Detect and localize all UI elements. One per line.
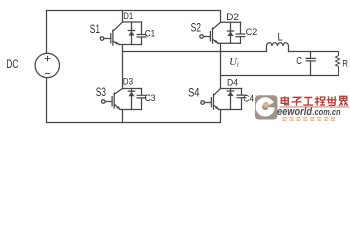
switch S3 IGBT gate terminal bbox=[102, 100, 106, 104]
wire S2 box top bbox=[221, 21, 241, 23]
switch S4 IGBT emitter bbox=[214, 105, 219, 109]
wire mid rail node A to filter bbox=[123, 51, 267, 53]
svg-text:C4: C4 bbox=[243, 94, 254, 105]
wire filter top right of inductor bbox=[289, 51, 339, 53]
wire S4 box bottom bbox=[219, 109, 242, 111]
switch S3 emitter arrow bbox=[117, 106, 121, 109]
wire S1 box top bbox=[123, 21, 142, 23]
switch S2 emitter arrow bbox=[214, 40, 218, 43]
svg-text:D3: D3 bbox=[123, 76, 133, 87]
wire S4 box top bbox=[221, 88, 242, 90]
switch S2 IGBT body bar bbox=[212, 28, 214, 43]
svg-text:S1: S1 bbox=[90, 22, 100, 36]
diode D4 bbox=[230, 89, 232, 110]
wire S1 top connection bbox=[122, 11, 124, 23]
switch S4 IGBT collector bbox=[214, 89, 221, 96]
wire S3 box bottom bbox=[120, 109, 142, 111]
switch S3 IGBT collector bbox=[114, 89, 122, 95]
switch S3 IGBT emitter bbox=[114, 104, 120, 109]
diode D2 bbox=[230, 22, 232, 43]
capacitor C branch bbox=[310, 52, 312, 76]
svg-text:.com.cn: .com.cn bbox=[313, 106, 341, 117]
svg-text:C3: C3 bbox=[145, 93, 156, 104]
switch S3 IGBT gate bar bbox=[111, 97, 113, 106]
switch S4 IGBT gate terminal bbox=[201, 101, 205, 105]
dc source plus mark bbox=[45, 56, 50, 61]
svg-text:S2: S2 bbox=[191, 21, 201, 35]
wire S2 top connection bbox=[220, 11, 222, 23]
switch S4 emitter arrow bbox=[215, 106, 219, 109]
svg-text:C2: C2 bbox=[246, 27, 257, 38]
svg-text:D1: D1 bbox=[123, 11, 133, 22]
wire S4 top connection bbox=[220, 88, 222, 90]
svg-text:D4: D4 bbox=[227, 78, 239, 89]
wire S1 emitter vertical bbox=[122, 45, 124, 52]
switch S1 IGBT body bar bbox=[112, 30, 114, 45]
switch S2 IGBT collector bbox=[213, 22, 221, 29]
capacitor C4 bbox=[241, 89, 243, 110]
wire S3 top connection bbox=[122, 52, 124, 89]
wire S3 emitter vertical bbox=[122, 110, 124, 123]
wire S4 emitter vertical bbox=[220, 110, 222, 123]
inductor L bbox=[267, 43, 289, 52]
capacitor C3 bbox=[141, 89, 143, 110]
wire S3 box top bbox=[123, 88, 142, 90]
switch S1 IGBT gate terminal bbox=[100, 37, 104, 41]
dc source V1 circle bbox=[35, 53, 59, 77]
switch S1 emitter arrow bbox=[115, 41, 119, 44]
svg-text:R: R bbox=[342, 58, 348, 69]
diode D1 bbox=[131, 22, 133, 45]
switch S2 IGBT emitter bbox=[213, 39, 218, 43]
switch S1 IGBT collector bbox=[113, 22, 123, 31]
switch S4 IGBT gate bar bbox=[210, 98, 212, 107]
dc source minus mark bbox=[45, 72, 49, 74]
wire load bottom from node B bbox=[221, 75, 339, 77]
svg-text:C: C bbox=[296, 56, 302, 67]
capacitor C2 bbox=[240, 22, 242, 43]
watermark slogan bbox=[283, 118, 336, 120]
switch S4 IGBT body bar bbox=[213, 94, 215, 109]
wire top rail (DC+) bbox=[47, 10, 221, 12]
watermark eeworld logo bbox=[255, 95, 277, 119]
wire bottom rail (DC-) bbox=[47, 122, 221, 124]
svg-text:S3: S3 bbox=[96, 85, 107, 99]
capacitor C1 bbox=[141, 22, 143, 45]
watermark underline bbox=[280, 106, 349, 108]
watermark title text bbox=[281, 96, 348, 106]
svg-text:DC: DC bbox=[6, 58, 18, 71]
wire S1 box bottom bbox=[119, 44, 142, 46]
svg-text:D2: D2 bbox=[226, 12, 239, 23]
switch S3 IGBT body bar bbox=[113, 93, 115, 108]
svg-text:eeworld: eeworld bbox=[277, 106, 313, 118]
switch S1 IGBT gate bar bbox=[110, 34, 112, 43]
svg-text:C1: C1 bbox=[145, 28, 155, 39]
wire right leg vertical node B bbox=[220, 44, 222, 89]
resistor R bbox=[336, 52, 340, 76]
switch S2 IGBT gate bar bbox=[209, 32, 211, 41]
wire S2 emitter vertical bbox=[220, 42, 222, 44]
svg-text:S4: S4 bbox=[188, 86, 200, 100]
switch S2 IGBT gate terminal bbox=[200, 35, 204, 39]
wire S2 box bottom bbox=[218, 42, 241, 44]
switch S1 IGBT emitter bbox=[113, 41, 119, 44]
wire left vertical from DC source bbox=[46, 11, 48, 123]
diode D3 bbox=[131, 89, 133, 110]
svg-text:L: L bbox=[278, 32, 283, 44]
